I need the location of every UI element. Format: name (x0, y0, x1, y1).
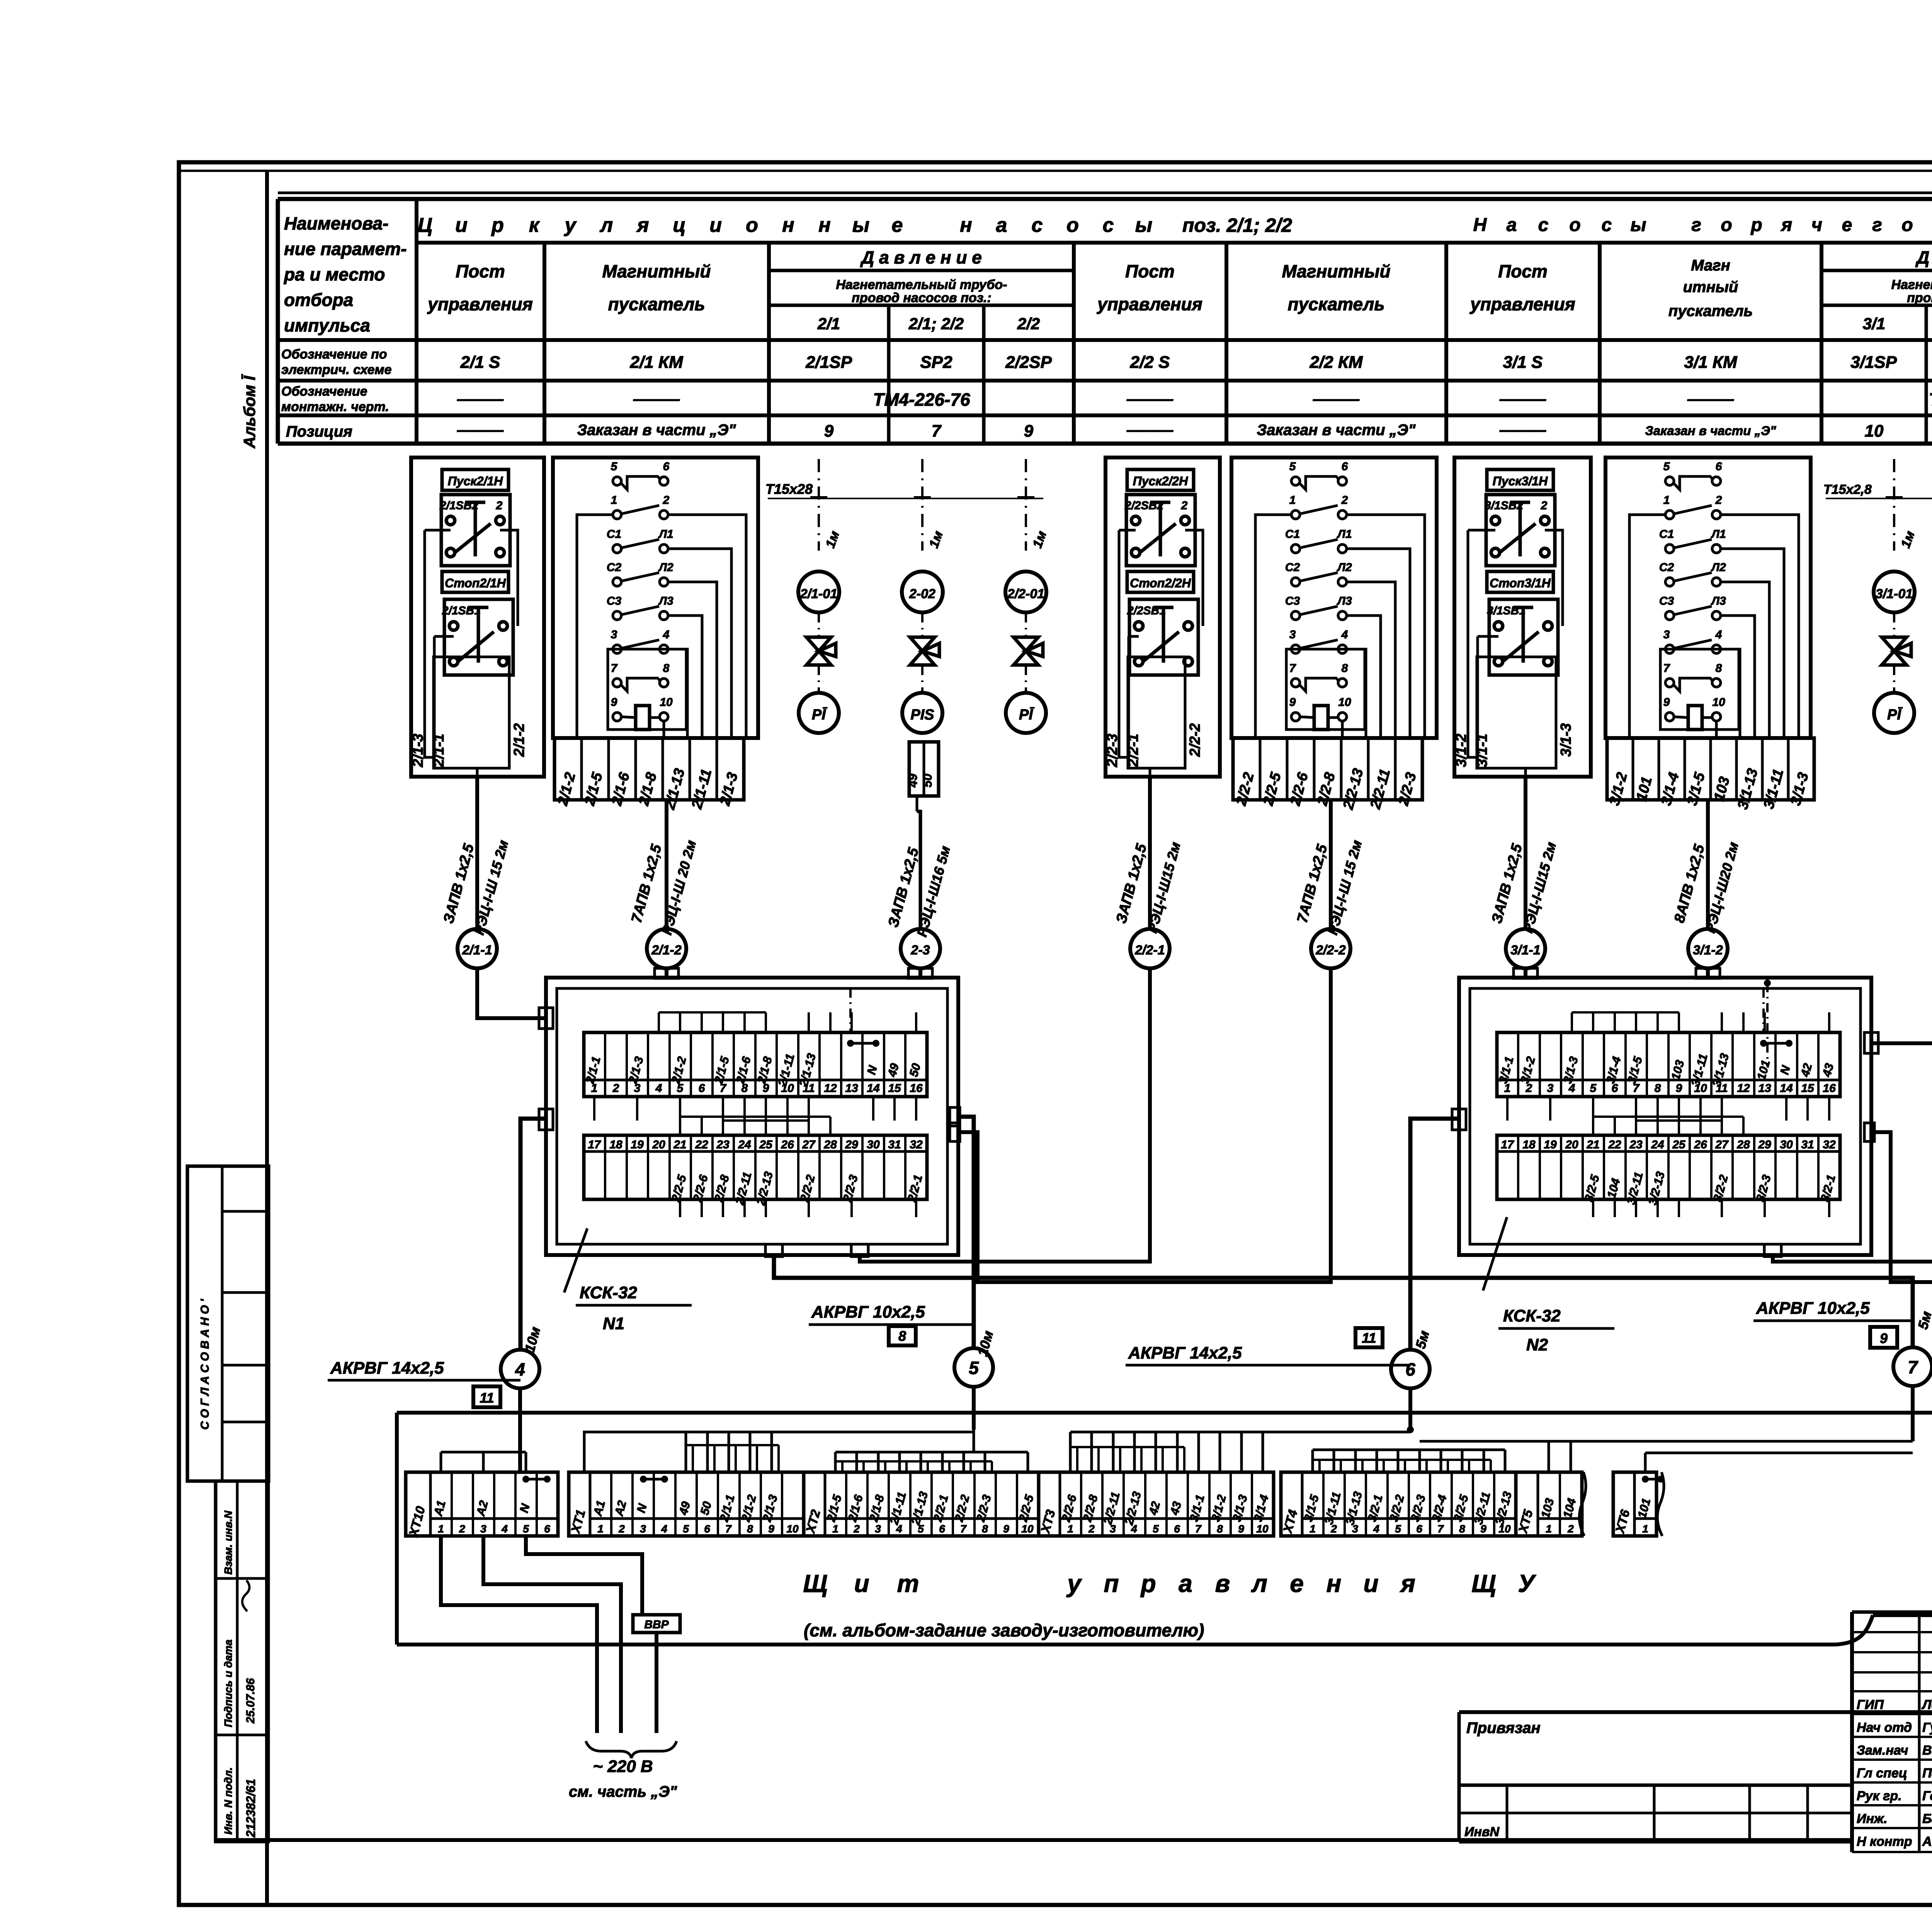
svg-text:управления: управления (1469, 294, 1575, 314)
svg-text:Пост: Пост (1125, 261, 1175, 281)
svg-text:управления: управления (427, 294, 533, 314)
svg-text:е: е (1290, 1570, 1304, 1597)
svg-text:23: 23 (1629, 1138, 1643, 1151)
svg-text:АКРВГ 10х2,5: АКРВГ 10х2,5 (811, 1303, 925, 1321)
svg-text:ние парамет-: ние парамет- (284, 239, 406, 259)
svg-text:управления: управления (1097, 294, 1202, 314)
КСК-32 N2 terminal row 1 (1496, 1032, 1840, 1097)
svg-text:25.07.86: 25.07.86 (244, 1678, 257, 1724)
terminal strip ХТ10 (406, 1472, 558, 1539)
jumper links on strip (522, 1476, 1664, 1483)
svg-text:23: 23 (716, 1138, 730, 1151)
pushbutton 2/1SВ1 (442, 599, 513, 675)
cable from unit at x=3948 (1489, 777, 1559, 935)
cable from starter 3/1KM (1671, 800, 1742, 935)
svg-text:пускатель: пускатель (1287, 294, 1384, 314)
svg-text:Анбиндер: Анбиндер (1922, 1834, 1932, 1849)
svg-text:Н контр: Н контр (1857, 1834, 1912, 1849)
svg-text:10: 10 (1338, 696, 1351, 709)
svg-text:3: 3 (1289, 628, 1296, 641)
svg-text:ч: ч (1811, 215, 1822, 235)
starter 2/2КМ contacts (1285, 460, 1352, 730)
svg-text:2/2-2: 2/2-2 (1315, 943, 1346, 957)
svg-text:о: о (1569, 215, 1580, 235)
strip break marks (1579, 1472, 1664, 1536)
svg-text:Щ: Щ (803, 1570, 827, 1597)
220V supply note (569, 1741, 677, 1800)
svg-text:Заказан в части „Э": Заказан в части „Э" (577, 422, 736, 439)
svg-text:я: я (1400, 1570, 1415, 1597)
svg-text:18: 18 (609, 1138, 622, 1151)
pushbutton 3/1SВ1 (1487, 599, 1558, 675)
svg-text:5: 5 (683, 1523, 689, 1535)
svg-text:Д а в л е н и е: Д а в л е н и е (860, 247, 982, 267)
svg-text:5: 5 (1395, 1523, 1401, 1535)
svg-text:с: с (1103, 214, 1114, 236)
svg-text:РIS: РIS (910, 707, 934, 723)
label Pusk 3/1 (1487, 469, 1553, 490)
svg-text:С1: С1 (607, 528, 621, 541)
gauge РĪ under 2/2-01 (1006, 693, 1046, 733)
pushbutton 2/2SВ1 (1127, 599, 1198, 675)
svg-text:Т15х28: Т15х28 (765, 481, 813, 497)
svg-text:7: 7 (960, 1523, 967, 1535)
svg-text:АКРВГ 14х2,5: АКРВГ 14х2,5 (330, 1359, 444, 1378)
svg-text:и: и (455, 214, 468, 236)
lower margin horizontal line (216, 1838, 1852, 1842)
parameter table grid (278, 193, 1932, 444)
svg-text:3: 3 (640, 1523, 646, 1535)
svg-text:13: 13 (845, 1082, 858, 1095)
svg-text:р: р (1750, 215, 1762, 235)
svg-text:3/1-1: 3/1-1 (1474, 734, 1490, 767)
pressure line 2/1-01 (810, 459, 842, 551)
svg-text:3: 3 (875, 1523, 881, 1535)
svg-text:10: 10 (786, 1523, 799, 1535)
svg-text:2-02: 2-02 (909, 587, 935, 601)
wires from XT10 down to supply (441, 1536, 642, 1733)
svg-text:У: У (1518, 1570, 1536, 1597)
svg-text:———: ——— (1313, 391, 1360, 408)
svg-text:Пуск3/1Н: Пуск3/1Н (1493, 474, 1548, 488)
svg-text:и: и (709, 214, 722, 236)
svg-text:Выборный: Выборный (1922, 1743, 1932, 1758)
svg-text:7: 7 (1663, 662, 1670, 675)
svg-text:С1: С1 (1285, 528, 1300, 541)
svg-text:10: 10 (1256, 1523, 1269, 1535)
svg-text:4: 4 (1373, 1523, 1379, 1535)
svg-text:я: я (636, 214, 649, 236)
svg-text:монтажн. черт.: монтажн. черт. (281, 400, 389, 414)
svg-text:2: 2 (459, 1523, 465, 1535)
svg-text:30: 30 (1780, 1138, 1793, 1151)
svg-text:5: 5 (1663, 460, 1670, 473)
svg-text:г: г (1872, 215, 1882, 235)
svg-text:2/2-01: 2/2-01 (1007, 587, 1044, 601)
svg-text:22: 22 (1608, 1138, 1621, 1151)
svg-text:с: с (1538, 215, 1549, 235)
svg-text:8: 8 (663, 662, 670, 675)
cable node circle 2/2-2 (1311, 929, 1350, 968)
wire box N2 to 3/2-2 (1864, 968, 1932, 1282)
svg-text:12: 12 (824, 1082, 837, 1095)
wiring comb to XT3 (1070, 1432, 1410, 1472)
svg-text:~ 220 В: ~ 220 В (593, 1757, 653, 1776)
svg-text:———: ——— (1126, 391, 1173, 408)
pressure line 3/1-01 (1886, 459, 1918, 551)
svg-text:———: ——— (1499, 422, 1546, 439)
svg-text:Зам.нач: Зам.нач (1857, 1743, 1908, 1758)
svg-text:о: о (1066, 214, 1079, 236)
svg-text:Нагнетательный трубо-: Нагнетательный трубо- (836, 277, 1007, 292)
svg-text:25: 25 (1672, 1138, 1686, 1151)
wire 2/1-1 to box N1 (477, 968, 553, 1029)
svg-text:21: 21 (1586, 1138, 1599, 1151)
svg-text:7: 7 (1289, 662, 1296, 675)
pipe label T15x28 group2 (1823, 482, 1932, 498)
svg-text:27: 27 (802, 1138, 816, 1151)
svg-text:———: ——— (1126, 422, 1173, 439)
svg-text:Взам. инв.N: Взам. инв.N (222, 1510, 234, 1575)
label Stop 2/1 (442, 571, 509, 592)
svg-text:9: 9 (1024, 422, 1034, 440)
svg-text:———: ——— (457, 391, 504, 408)
cable 7 AKRVG 10x2.5 from box N1 bottom (765, 1244, 1932, 1348)
title block signature grid (1852, 1612, 1932, 1852)
starter 3/1КМ terminal label row (1606, 738, 1814, 811)
wiring comb to XT10 (441, 1452, 526, 1472)
svg-text:4: 4 (663, 628, 670, 641)
svg-text:Инв. N подл.: Инв. N подл. (222, 1767, 234, 1835)
control post 2/2 box (1105, 457, 1220, 777)
starter 2/1КМ terminal label row (554, 738, 744, 811)
svg-text:24: 24 (1651, 1138, 1664, 1151)
svg-text:26: 26 (781, 1138, 794, 1151)
svg-text:РĪ: РĪ (1887, 707, 1903, 723)
svg-text:1: 1 (438, 1523, 444, 1535)
svg-text:Горбалетова: Горбалетова (1922, 1789, 1932, 1803)
svg-text:поз. 2/1; 2/2: поз. 2/1; 2/2 (1182, 214, 1292, 236)
svg-text:9: 9 (611, 696, 617, 709)
svg-text:10: 10 (1712, 696, 1725, 709)
svg-text:Гужева: Гужева (1922, 1720, 1932, 1735)
svg-text:2: 2 (612, 1082, 619, 1095)
svg-text:14: 14 (1780, 1082, 1793, 1095)
svg-text:212382/61: 212382/61 (244, 1779, 258, 1838)
svg-text:22: 22 (695, 1138, 708, 1151)
svg-text:29: 29 (845, 1138, 858, 1151)
svg-text:Магнитный: Магнитный (1282, 261, 1391, 281)
КСК-32 N2 terminal row 2 (1497, 1135, 1840, 1206)
svg-text:С3: С3 (607, 595, 622, 607)
svg-text:РĪ: РĪ (1019, 707, 1034, 723)
cable node circle 6 (1391, 1350, 1430, 1433)
svg-text:49: 49 (906, 774, 920, 788)
svg-text:6: 6 (699, 1082, 705, 1095)
svg-text:28: 28 (1736, 1138, 1750, 1151)
svg-text:21: 21 (673, 1138, 686, 1151)
svg-text:Пост: Пост (456, 261, 505, 281)
svg-text:Л2: Л2 (658, 561, 673, 574)
svg-text:ТМ4 226-76: ТМ4 226-76 (1929, 389, 1932, 410)
svg-text:2/1; 2/2: 2/1; 2/2 (908, 315, 964, 333)
wiring comb to XT2 (835, 1430, 1028, 1472)
svg-text:а: а (996, 214, 1007, 236)
svg-text:15: 15 (1801, 1082, 1815, 1095)
svg-text:ра и место: ра и место (283, 264, 385, 284)
svg-text:о: о (746, 214, 758, 236)
svg-text:3: 3 (1663, 628, 1670, 641)
svg-text:6: 6 (939, 1523, 945, 1535)
cable from starter 2/2KM (1294, 800, 1365, 937)
svg-text:2: 2 (1088, 1523, 1095, 1535)
svg-text:ИнвN: ИнвN (1464, 1825, 1500, 1839)
svg-text:я: я (1780, 215, 1792, 235)
svg-text:11: 11 (1362, 1330, 1376, 1346)
svg-text:ы: ы (1135, 214, 1152, 236)
table values: position (457, 422, 1932, 440)
svg-text:6: 6 (704, 1523, 710, 1535)
svg-text:16: 16 (1823, 1082, 1836, 1095)
label Stop 2/2 (1127, 571, 1194, 592)
svg-text:6: 6 (544, 1523, 550, 1535)
magnetic starter 2/1КМ box (553, 457, 758, 738)
post 2/2 internal wiring (1119, 530, 1203, 777)
wire 3-3 to box N2 right edge (1864, 968, 1932, 1053)
svg-text:и: и (854, 1570, 869, 1597)
wire 3/1-2 into box N2 top (1696, 968, 1720, 978)
cable node circle 5 (954, 1348, 993, 1430)
svg-text:п: п (1104, 1570, 1119, 1597)
svg-text:2: 2 (1341, 494, 1348, 507)
svg-text:N1: N1 (603, 1314, 624, 1333)
svg-text:Щ: Щ (1471, 1570, 1496, 1597)
svg-text:19: 19 (631, 1138, 644, 1151)
valve under 3/1-01 (1882, 612, 1911, 692)
svg-text:4: 4 (501, 1523, 508, 1535)
wire box N1 to 2/2-2 (950, 968, 1331, 1282)
svg-text:2/2 КМ: 2/2 КМ (1309, 353, 1363, 372)
svg-text:26: 26 (1694, 1138, 1707, 1151)
svg-text:3/1SР: 3/1SР (1850, 353, 1897, 372)
gauge РIS under 2-02 (902, 693, 942, 733)
svg-text:Т15х2,8: Т15х2,8 (1823, 482, 1872, 497)
svg-text:Стоп2/1Н: Стоп2/1Н (445, 576, 506, 590)
svg-text:отбора: отбора (284, 290, 353, 310)
svg-text:7: 7 (1908, 1357, 1918, 1377)
starter 3/1КМ internal wiring (1629, 515, 1799, 738)
cable node circle 7 (1893, 1347, 1932, 1441)
svg-text:импульса: импульса (284, 315, 370, 335)
svg-text:н: н (782, 214, 794, 236)
svg-text:6: 6 (1716, 460, 1722, 473)
svg-text:Магнитный: Магнитный (602, 261, 711, 281)
КСК-32 N1 terminal row 1 (583, 1032, 927, 1097)
svg-text:С2: С2 (1659, 561, 1674, 574)
svg-text:13: 13 (1758, 1082, 1771, 1095)
svg-text:15: 15 (888, 1082, 901, 1095)
svg-text:С1: С1 (1659, 528, 1674, 541)
svg-text:Обозначение по: Обозначение по (281, 347, 387, 362)
svg-text:14: 14 (867, 1082, 880, 1095)
table row labels (281, 347, 392, 440)
svg-text:3/1: 3/1 (1863, 315, 1885, 333)
svg-text:3/1-1: 3/1-1 (1510, 943, 1541, 957)
svg-text:5: 5 (969, 1358, 979, 1378)
starter 3/1КМ contacts (1659, 460, 1726, 730)
svg-text:2/1-1: 2/1-1 (462, 943, 492, 957)
svg-text:пускатель: пускатель (1668, 303, 1753, 320)
svg-text:Пуск2/2Н: Пуск2/2Н (1133, 474, 1188, 488)
svg-text:АКРВГ 14х2,5: АКРВГ 14х2,5 (1128, 1344, 1242, 1362)
starter 2/1КМ contacts (607, 460, 673, 730)
label Pusk 2/1 (442, 469, 509, 490)
cable 6 AKRVG 14x2.5 from box N2 (1126, 1109, 1466, 1365)
svg-text:Нач отд: Нач отд (1857, 1720, 1912, 1735)
svg-text:Пуск2/1Н: Пуск2/1Н (448, 474, 503, 488)
svg-text:КСК-32: КСК-32 (580, 1283, 637, 1302)
svg-text:31: 31 (888, 1138, 901, 1151)
svg-text:32: 32 (910, 1138, 923, 1151)
КСК-32 N2 internal stubs (1507, 988, 1829, 1217)
svg-text:SР2: SР2 (920, 353, 952, 372)
instrument circle 2/1-01 (798, 571, 839, 612)
pressure line 2-02 (914, 459, 946, 551)
svg-text:Л3: Л3 (1711, 595, 1726, 607)
svg-text:2: 2 (1181, 499, 1188, 512)
svg-text:8: 8 (747, 1523, 753, 1535)
svg-text:Д а в л е н и е: Д а в л е н и е (1915, 247, 1932, 267)
svg-text:Л1: Л1 (1711, 528, 1726, 541)
starter 2/1КМ internal wiring (577, 515, 746, 738)
svg-text:провод насосов поз.:: провод насосов поз.: (852, 291, 992, 305)
svg-text:р: р (1140, 1570, 1156, 1597)
svg-text:2: 2 (1715, 494, 1722, 507)
instrument circle 3/1-01 (1874, 571, 1915, 612)
svg-text:9: 9 (1003, 1523, 1009, 1535)
svg-text:е: е (892, 214, 903, 236)
wiring comb to XT5 XT6 (1549, 1441, 1913, 1472)
svg-text:Лебуенкова: Лебуенкова (1921, 1697, 1932, 1712)
svg-text:10: 10 (1021, 1523, 1034, 1535)
svg-text:3/1-2: 3/1-2 (1693, 943, 1723, 957)
cable node circle 4 (501, 1350, 539, 1472)
svg-text:у: у (564, 214, 577, 236)
valve under 2/2-01 (1014, 612, 1043, 692)
svg-text:г: г (1691, 215, 1701, 235)
wire 3/1-1 into box N2 top (1514, 968, 1537, 978)
svg-text:8: 8 (1459, 1523, 1465, 1535)
svg-text:к: к (529, 214, 540, 236)
svg-text:2/2-1: 2/2-1 (1134, 943, 1165, 957)
magnetic starter 2/2КМ box (1231, 457, 1437, 738)
svg-text:28: 28 (823, 1138, 837, 1151)
svg-text:о: о (1721, 215, 1732, 235)
svg-text:3: 3 (480, 1523, 486, 1535)
svg-text:(см. альбом-задание заводу-изг: (см. альбом-задание заводу-изготовителю) (804, 1620, 1204, 1640)
svg-text:11: 11 (480, 1390, 494, 1406)
svg-text:1: 1 (1289, 494, 1296, 507)
svg-text:С3: С3 (1659, 595, 1674, 607)
KCK-32 N2 label (1483, 1217, 1614, 1354)
svg-text:Позиция: Позиция (286, 423, 352, 440)
svg-text:Паз: Паз (1922, 1766, 1932, 1781)
svg-text:ТМ4-226-76: ТМ4-226-76 (873, 389, 970, 410)
svg-text:2/1-01: 2/1-01 (800, 587, 837, 601)
svg-text:2: 2 (663, 494, 670, 507)
cable 4 AKRVG 14x2.5 from box N1 (328, 1109, 553, 1407)
svg-text:КСК-32: КСК-32 (1503, 1306, 1561, 1325)
svg-text:ы: ы (852, 214, 869, 236)
svg-text:Н: Н (1473, 215, 1487, 235)
svg-text:2-3: 2-3 (910, 943, 930, 957)
svg-text:———: ——— (1687, 391, 1734, 408)
svg-text:8: 8 (982, 1523, 988, 1535)
svg-text:18: 18 (1522, 1138, 1536, 1151)
svg-text:25: 25 (759, 1138, 773, 1151)
svg-text:3: 3 (1547, 1082, 1554, 1095)
svg-text:Барт: Барт (1922, 1811, 1932, 1826)
svg-text:6: 6 (1174, 1523, 1180, 1535)
svg-text:3: 3 (611, 628, 617, 641)
instrument circle 2/2-01 (1005, 571, 1046, 612)
cable node circle 2/2-1 (1130, 929, 1170, 968)
svg-text:1: 1 (1067, 1523, 1073, 1535)
junction dot and dashdot inside N2 (1764, 980, 1771, 1066)
post 2/1 terminal labels (410, 723, 527, 768)
svg-text:1: 1 (1310, 1523, 1316, 1535)
magnetic starter 3/1КМ box (1605, 457, 1811, 738)
valve under 2-02 (910, 612, 939, 692)
svg-text:4: 4 (515, 1359, 525, 1379)
svg-text:2/1-1: 2/1-1 (431, 734, 447, 768)
svg-text:9: 9 (824, 422, 834, 440)
svg-text:л: л (1251, 1570, 1267, 1597)
terminal strip ХТ2 (803, 1472, 1039, 1536)
svg-text:Рук гр.: Рук гр. (1857, 1789, 1902, 1803)
svg-text:Альбом Ī: Альбом Ī (240, 374, 259, 449)
svg-text:1: 1 (611, 494, 617, 507)
svg-text:а: а (1179, 1570, 1192, 1597)
svg-text:3/1-01: 3/1-01 (1876, 587, 1913, 601)
КСК-32 N1 internal stubs (594, 988, 916, 1217)
table values: designations (460, 353, 1932, 372)
svg-text:8: 8 (1655, 1082, 1661, 1095)
svg-text:С О Г Л А С О В А Н О ': С О Г Л А С О В А Н О ' (199, 1299, 211, 1430)
svg-text:5: 5 (523, 1523, 529, 1535)
wire box N2 to 3/2-1 (1764, 968, 1932, 1262)
svg-text:с: с (1032, 214, 1043, 236)
svg-text:3/1 КМ: 3/1 КМ (1684, 353, 1737, 372)
svg-text:9: 9 (1238, 1523, 1244, 1535)
cable from unit at x=1235 (440, 777, 512, 937)
svg-text:1: 1 (1642, 1523, 1648, 1535)
title Щит управления ЩУ (803, 1570, 1536, 1640)
terminal strip ХТ3 (1038, 1472, 1274, 1536)
left margin lower stamp (216, 1481, 268, 1842)
impulse tube labels ('49', '50') (906, 742, 939, 796)
svg-text:С3: С3 (1285, 595, 1300, 607)
svg-text:Заказан в части „Э": Заказан в части „Э" (1257, 422, 1416, 439)
svg-text:н: н (1327, 1570, 1342, 1597)
svg-text:4: 4 (655, 1082, 662, 1095)
svg-text:9: 9 (768, 1523, 774, 1535)
terminal strip ХТ5 (1515, 1472, 1582, 1536)
svg-text:6: 6 (663, 460, 670, 473)
svg-text:электрич. схеме: электрич. схеме (281, 362, 392, 377)
svg-text:8: 8 (1342, 662, 1348, 675)
svg-text:Стоп3/1Н: Стоп3/1Н (1490, 576, 1551, 590)
